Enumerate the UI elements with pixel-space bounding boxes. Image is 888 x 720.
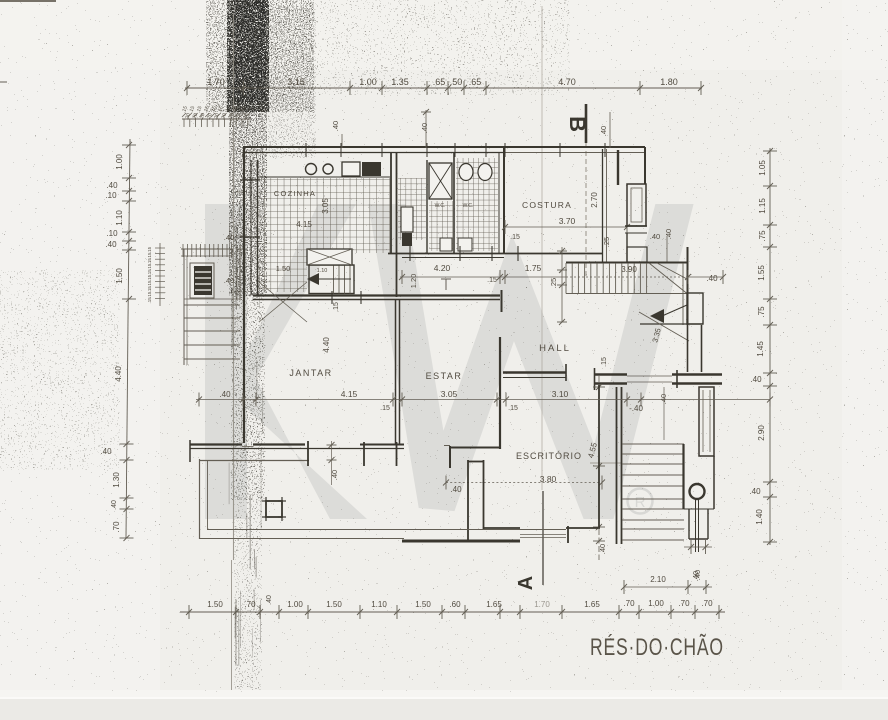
svg-text:3.05: 3.05: [321, 198, 330, 214]
svg-text:.40: .40: [224, 276, 234, 285]
svg-text:1.00: 1.00: [648, 599, 664, 608]
svg-text:1.40: 1.40: [755, 509, 764, 525]
svg-text:4.15: 4.15: [296, 220, 312, 229]
svg-text:1.15: 1.15: [758, 198, 767, 214]
svg-text:3.15: 3.15: [287, 77, 305, 87]
svg-text:.25: .25: [602, 237, 611, 247]
svg-text:4.15: 4.15: [341, 389, 358, 399]
svg-text:2.90: 2.90: [757, 425, 766, 441]
svg-text:.15: .15: [147, 269, 152, 276]
svg-text:1.75: 1.75: [525, 263, 542, 273]
svg-text:1.10: 1.10: [371, 600, 387, 609]
svg-text:1.70: 1.70: [207, 77, 225, 87]
svg-text:.10: .10: [106, 229, 118, 238]
svg-text:1.50: 1.50: [207, 600, 223, 609]
svg-text:.15: .15: [601, 357, 608, 367]
svg-text:1.55: 1.55: [757, 265, 766, 281]
svg-text:1.05: 1.05: [758, 160, 767, 176]
svg-text:.40: .40: [219, 390, 231, 399]
svg-text:3.10: 3.10: [552, 389, 569, 399]
svg-text:1.50: 1.50: [415, 600, 431, 609]
svg-text:1.70: 1.70: [534, 600, 550, 609]
svg-text:.15: .15: [147, 297, 152, 304]
svg-text:3.90: 3.90: [621, 265, 637, 274]
svg-text:.40: .40: [420, 123, 429, 133]
svg-text:1.50: 1.50: [115, 268, 124, 284]
svg-text:.50: .50: [450, 77, 463, 87]
svg-text:1.45: 1.45: [756, 341, 765, 357]
svg-text:.40: .40: [224, 233, 234, 242]
svg-text:.40: .40: [100, 447, 112, 456]
svg-text:.15: .15: [147, 246, 152, 253]
svg-text:4.40: 4.40: [114, 366, 123, 382]
svg-text:COZINHA: COZINHA: [274, 189, 316, 198]
svg-text:.15: .15: [147, 263, 152, 270]
svg-text:.70: .70: [701, 599, 713, 608]
svg-text:1.80: 1.80: [660, 77, 678, 87]
svg-text:.40: .40: [266, 595, 273, 605]
svg-text:1.00: 1.00: [115, 154, 124, 170]
svg-text:1.50: 1.50: [326, 600, 342, 609]
svg-text:.25: .25: [549, 278, 558, 288]
svg-text:.40: .40: [106, 181, 118, 190]
svg-text:.40: .40: [105, 240, 117, 249]
svg-text:3.70: 3.70: [559, 216, 576, 226]
svg-text:1.65: 1.65: [584, 600, 600, 609]
svg-text:1.00: 1.00: [359, 77, 377, 87]
svg-text:.40: .40: [330, 470, 339, 480]
svg-text:2.70: 2.70: [590, 192, 599, 208]
svg-text:.10: .10: [105, 191, 117, 200]
svg-text:.40: .40: [749, 487, 761, 496]
svg-text:.15: .15: [380, 405, 390, 412]
svg-text:.15: .15: [333, 302, 340, 312]
svg-text:W.C.: W.C.: [435, 203, 446, 209]
svg-text:.40: .40: [331, 121, 340, 131]
svg-text:1.00: 1.00: [287, 600, 303, 609]
svg-text:.60: .60: [449, 600, 461, 609]
svg-text:.40: .40: [650, 232, 660, 241]
svg-text:.70: .70: [112, 521, 121, 533]
svg-text:.15: .15: [147, 252, 152, 259]
svg-text:.40: .40: [750, 375, 762, 384]
svg-text:.70: .70: [678, 599, 690, 608]
svg-text:.40: .40: [598, 544, 607, 554]
svg-text:.40: .40: [111, 500, 118, 510]
svg-text:.65: .65: [469, 77, 482, 87]
svg-text:W.C.: W.C.: [463, 203, 474, 209]
svg-text:COSTURA: COSTURA: [522, 200, 572, 210]
svg-text:.70: .70: [244, 600, 256, 609]
svg-text:.15: .15: [147, 274, 152, 281]
svg-text:.75: .75: [758, 230, 767, 242]
svg-text:A: A: [515, 576, 537, 590]
svg-text:HALL: HALL: [539, 343, 571, 354]
svg-text:1.65: 1.65: [486, 600, 502, 609]
svg-text:.70: .70: [623, 599, 635, 608]
svg-text:ESCRITÓRIO: ESCRITÓRIO: [516, 451, 582, 461]
svg-text:RÉS·DO·CHÃO: RÉS·DO·CHÃO: [590, 632, 724, 661]
svg-text:.40: .40: [450, 485, 462, 494]
svg-text:.15: .15: [147, 280, 152, 287]
svg-text:ESTAR: ESTAR: [426, 371, 463, 381]
svg-text:.15: .15: [487, 277, 497, 284]
svg-text:1.20: 1.20: [409, 274, 418, 289]
svg-text:1.35: 1.35: [391, 77, 409, 87]
svg-text:2.10: 2.10: [650, 575, 666, 584]
svg-text:.15: .15: [147, 291, 152, 298]
svg-text:1.30: 1.30: [112, 472, 121, 488]
svg-text:.40: .40: [691, 571, 700, 581]
svg-text:.75: .75: [757, 306, 766, 318]
svg-text:.40: .40: [664, 229, 673, 239]
svg-text:.40: .40: [659, 394, 668, 404]
svg-text:.15: .15: [147, 286, 152, 293]
svg-text:.15: .15: [508, 405, 518, 412]
svg-text:3.05: 3.05: [441, 389, 458, 399]
svg-text:.15: .15: [510, 234, 520, 241]
svg-text:4.40: 4.40: [322, 337, 331, 353]
svg-text:1.10: 1.10: [317, 268, 328, 274]
svg-text:1.10: 1.10: [115, 210, 124, 226]
svg-text:.65: .65: [433, 77, 446, 87]
svg-text:.40: .40: [706, 274, 718, 283]
svg-text:JANTAR: JANTAR: [289, 368, 332, 378]
svg-text:4.20: 4.20: [434, 263, 451, 273]
svg-text:4.70: 4.70: [558, 77, 576, 87]
svg-text:.40: .40: [599, 126, 608, 136]
svg-text:.15: .15: [147, 258, 152, 265]
svg-text:1.50: 1.50: [276, 264, 291, 273]
